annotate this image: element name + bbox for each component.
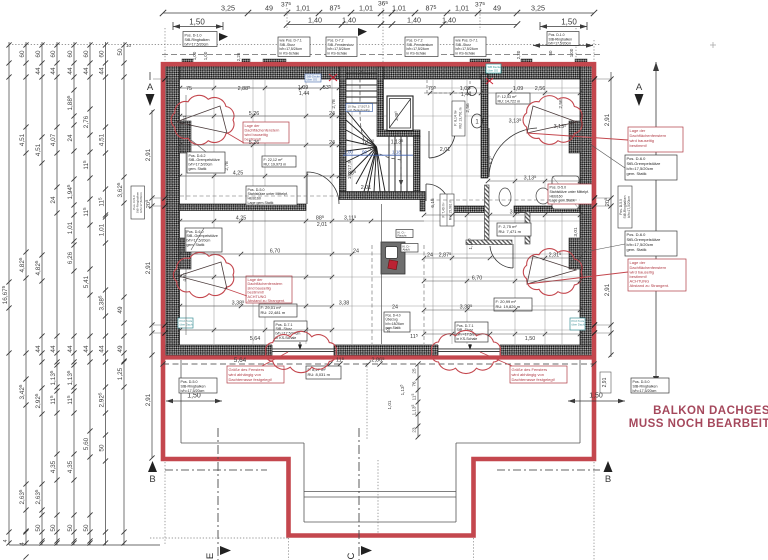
right section arrow line bbox=[655, 62, 657, 385]
red line bottom wall bbox=[163, 355, 594, 359]
revision cloud bottom left bbox=[266, 331, 337, 372]
skylight shaft bbox=[387, 96, 413, 131]
svg-text:3,25: 3,25 bbox=[531, 4, 545, 13]
left room inner dim verticals bbox=[185, 95, 187, 335]
svg-text:4,25: 4,25 bbox=[236, 216, 247, 222]
svg-text:über OG: über OG bbox=[488, 68, 499, 72]
wall pier left lower bbox=[179, 238, 191, 269]
svg-text:in KS-Schale: in KS-Schale bbox=[456, 52, 476, 56]
dashed line above top wall bbox=[162, 54, 600, 56]
partition wall bath right bbox=[525, 212, 530, 244]
svg-text:1,50: 1,50 bbox=[189, 18, 205, 27]
svg-text:Lage der: Lage der bbox=[245, 124, 261, 128]
dashdot verticals E C bbox=[217, 428, 219, 560]
svg-text:1,40: 1,40 bbox=[342, 16, 356, 25]
small rotated box 2,91 bbox=[600, 372, 611, 393]
extension lines left wall bbox=[153, 79, 612, 333]
svg-text:2,78: 2,78 bbox=[331, 99, 337, 109]
svg-text:1,50: 1,50 bbox=[525, 336, 536, 342]
svg-text:RU: 22,481 m: RU: 22,481 m bbox=[261, 310, 286, 315]
revision cloud top right bbox=[523, 96, 582, 145]
svg-text:Abstand zu Strangent.: Abstand zu Strangent. bbox=[630, 283, 670, 288]
interior dim lines bbox=[180, 88, 580, 334]
position circle 1 bbox=[472, 114, 483, 128]
cloud leader lines bbox=[227, 133, 628, 366]
box sturz bottom left bbox=[274, 321, 307, 341]
svg-text:5,41: 5,41 bbox=[83, 275, 90, 288]
svg-text:1,50: 1,50 bbox=[187, 393, 201, 400]
stair walk line bbox=[360, 72, 401, 186]
box F 20,99 bbox=[494, 298, 532, 311]
svg-text:4,51: 4,51 bbox=[98, 133, 105, 146]
partition wall bath horizontal bbox=[466, 240, 512, 245]
svg-text:1,44: 1,44 bbox=[461, 92, 472, 98]
revision cloud mid right bbox=[523, 249, 582, 296]
box F 29,01 bbox=[259, 304, 297, 317]
svg-text:B: B bbox=[605, 474, 611, 485]
svg-text:4,25: 4,25 bbox=[233, 171, 244, 177]
box ringbalken bottom right bbox=[631, 378, 669, 393]
interior wall horizontal right bbox=[514, 206, 580, 213]
svg-text:49: 49 bbox=[265, 4, 273, 13]
stair upper flight treads bbox=[346, 73, 377, 103]
svg-text:RU: 15,081 m: RU: 15,081 m bbox=[449, 200, 453, 221]
top dimension chain bbox=[163, 13, 594, 25]
svg-text:6,15: 6,15 bbox=[430, 198, 436, 208]
right B marker bbox=[604, 461, 613, 472]
svg-text:4: 4 bbox=[3, 539, 9, 542]
paper mark bbox=[710, 42, 716, 48]
svg-text:über Dach: über Dach bbox=[572, 322, 585, 326]
window arrows from sturz boxes bbox=[300, 342, 470, 348]
svg-text:5,64: 5,64 bbox=[234, 357, 247, 364]
svg-text:1,01: 1,01 bbox=[67, 221, 74, 234]
svg-text:BALKON DACHGES: BALKON DACHGES bbox=[653, 405, 768, 417]
leader lines right boxes bbox=[584, 140, 625, 252]
svg-text:1,00: 1,00 bbox=[203, 51, 208, 60]
box stahlstuetze left bbox=[246, 186, 297, 205]
box Pos D-1.0 top left bbox=[183, 32, 217, 47]
svg-text:50: 50 bbox=[67, 524, 74, 532]
svg-text:24: 24 bbox=[386, 327, 392, 333]
svg-text:in KS-Schale: in KS-Schale bbox=[280, 52, 300, 56]
svg-text:24: 24 bbox=[427, 253, 433, 259]
svg-text:Stahlstütze unter Mittelpf.: Stahlstütze unter Mittelpf. bbox=[248, 192, 289, 196]
box stahlstuetze right bbox=[548, 184, 592, 204]
svg-text:60: 60 bbox=[50, 50, 57, 58]
svg-text:44: 44 bbox=[67, 67, 74, 75]
svg-text:2,76: 2,76 bbox=[83, 115, 90, 128]
svg-text:Pos. D-5.0: Pos. D-5.0 bbox=[248, 188, 265, 192]
door arc hall to room bbox=[426, 184, 448, 201]
svg-text:Lage gem.Statik: Lage gem.Statik bbox=[248, 201, 274, 205]
near-plan left dim line bbox=[151, 110, 153, 458]
box right grempel 1 bbox=[625, 155, 677, 180]
svg-text:44: 44 bbox=[50, 345, 57, 353]
svg-text:1,01: 1,01 bbox=[98, 223, 105, 236]
svg-text:4,35: 4,35 bbox=[67, 460, 74, 473]
svg-text:A: A bbox=[147, 82, 154, 93]
svg-text:60: 60 bbox=[67, 50, 74, 58]
flag top left bbox=[219, 33, 228, 41]
svg-text:b/h=17,5/20cm: b/h=17,5/20cm bbox=[187, 239, 211, 243]
svg-text:4: 4 bbox=[19, 542, 26, 546]
svg-text:60: 60 bbox=[83, 50, 90, 58]
svg-text:2,20: 2,20 bbox=[516, 50, 521, 59]
box F 22,12 bbox=[262, 156, 296, 167]
svg-text:1,40: 1,40 bbox=[407, 16, 421, 25]
svg-text:E: E bbox=[205, 553, 216, 559]
svg-text:5,60: 5,60 bbox=[83, 437, 90, 450]
stair lower flight treads bbox=[368, 137, 407, 192]
wall pier right lower bbox=[569, 238, 581, 269]
svg-text:2,56: 2,56 bbox=[535, 86, 546, 92]
svg-text:44: 44 bbox=[83, 345, 90, 353]
svg-text:76: 76 bbox=[412, 381, 417, 387]
terrace steps double line bbox=[304, 491, 456, 493]
svg-text:in KS-Schale: in KS-Schale bbox=[328, 52, 348, 56]
svg-text:3,38: 3,38 bbox=[339, 301, 350, 307]
svg-text:6,26: 6,26 bbox=[67, 251, 74, 264]
svg-text:2,91: 2,91 bbox=[604, 113, 611, 126]
svg-text:2,78: 2,78 bbox=[224, 161, 230, 171]
stair label box bbox=[346, 104, 373, 112]
svg-text:2,01: 2,01 bbox=[440, 147, 451, 153]
svg-text:b/h=17,5/20cm: b/h=17,5/20cm bbox=[185, 42, 209, 46]
box F 12,53 bbox=[496, 93, 530, 104]
interior wall vertical right bbox=[481, 74, 488, 178]
svg-text:RU: 7,471 m: RU: 7,471 m bbox=[499, 229, 522, 234]
stair winder fan upper bbox=[346, 110, 377, 192]
box grempel top left bbox=[187, 152, 225, 173]
svg-text:StB.-Sturz: StB.-Sturz bbox=[276, 327, 293, 331]
svg-text:StB-Ringbalken: StB-Ringbalken bbox=[181, 384, 206, 388]
wall tick slashes bbox=[162, 76, 167, 81]
sink fixture bbox=[536, 188, 550, 204]
svg-text:50: 50 bbox=[50, 524, 57, 532]
svg-text:Dachterrasse festgelegt!: Dachterrasse festgelegt! bbox=[229, 377, 272, 382]
svg-text:b/h=17,5/20cm: b/h=17,5/20cm bbox=[627, 196, 631, 218]
svg-text:4,07: 4,07 bbox=[50, 133, 57, 146]
svg-text:1,50: 1,50 bbox=[589, 393, 603, 400]
leader lines left boxes bbox=[191, 140, 206, 250]
svg-text:A: A bbox=[636, 82, 643, 93]
svg-text:2,01: 2,01 bbox=[317, 222, 328, 228]
svg-text:b/h=17,5/20cm: b/h=17,5/20cm bbox=[633, 389, 657, 393]
svg-text:2,56: 2,56 bbox=[558, 99, 564, 109]
box sturz bottom right bbox=[455, 322, 488, 342]
svg-text:C: C bbox=[346, 552, 357, 559]
svg-text:2,56: 2,56 bbox=[465, 103, 471, 113]
svg-text:Pos. D-5.0: Pos. D-5.0 bbox=[181, 380, 198, 384]
red box right 2 bbox=[628, 259, 686, 291]
right dim line bbox=[610, 72, 612, 357]
dashed ridge lines lower rooms bbox=[180, 196, 580, 344]
box right grempel 2 bbox=[625, 231, 677, 256]
svg-text:2,26: 2,26 bbox=[236, 52, 241, 61]
box rotated F 8,14 bbox=[452, 101, 465, 136]
svg-text:44: 44 bbox=[35, 345, 42, 353]
svg-text:StB.-Grempelstütze: StB.-Grempelstütze bbox=[189, 158, 220, 162]
svg-text:1,18: 1,18 bbox=[392, 150, 401, 155]
lintel marks above top wall bbox=[182, 59, 193, 64]
svg-text:1,40: 1,40 bbox=[442, 16, 456, 25]
box Pos D-7.1 a bbox=[278, 37, 310, 57]
outer wall bottom bbox=[166, 345, 593, 356]
skylight dashed rect bbox=[427, 74, 470, 93]
svg-text:50: 50 bbox=[117, 48, 124, 56]
svg-text:Pos. D-7.1: Pos. D-7.1 bbox=[457, 324, 474, 328]
svg-text:4,51: 4,51 bbox=[182, 115, 188, 125]
svg-text:44: 44 bbox=[35, 67, 42, 75]
stair core wall bottom bbox=[339, 192, 425, 200]
svg-text:gem. Statik: gem. Statik bbox=[627, 171, 647, 176]
revision cloud bottom right bbox=[432, 330, 501, 373]
rotated F 7,49 box bbox=[440, 194, 454, 226]
svg-text:44: 44 bbox=[67, 345, 74, 353]
svg-text:gem. Statik: gem. Statik bbox=[187, 243, 205, 247]
window symbol triangles in clouds bbox=[176, 106, 577, 289]
svg-text:5,26: 5,26 bbox=[249, 140, 260, 146]
svg-text:Pos. D-7.1: Pos. D-7.1 bbox=[276, 323, 293, 327]
svg-text:F: 22,12 m²: F: 22,12 m² bbox=[264, 158, 284, 162]
svg-text:F: 8,14 m²: F: 8,14 m² bbox=[454, 109, 458, 125]
dotted verticals terrace bbox=[150, 363, 594, 560]
svg-text:23: 23 bbox=[412, 427, 417, 433]
svg-text:1,09: 1,09 bbox=[460, 86, 471, 92]
wc fixture bbox=[499, 188, 511, 206]
small blue box top stair bbox=[486, 64, 501, 73]
svg-text:StB-Ringbalken: StB-Ringbalken bbox=[185, 38, 210, 42]
svg-text:b/h=17,5/20cm: b/h=17,5/20cm bbox=[549, 42, 572, 46]
svg-text:1,00: 1,00 bbox=[569, 48, 574, 57]
red x small bbox=[486, 78, 493, 84]
svg-text:44: 44 bbox=[98, 67, 105, 75]
outer wall top bbox=[166, 66, 593, 79]
chimney labels bbox=[396, 230, 413, 238]
svg-text:RU: 8,031 m: RU: 8,031 m bbox=[308, 372, 331, 377]
svg-text:gem. Statik: gem. Statik bbox=[627, 247, 647, 252]
svg-text:1,01: 1,01 bbox=[296, 4, 310, 13]
svg-text:49: 49 bbox=[117, 345, 124, 353]
svg-text:Abluft: Abluft bbox=[403, 248, 410, 252]
left B marker bbox=[148, 461, 157, 472]
outer wall left bbox=[166, 64, 180, 356]
box ueberzug bbox=[384, 312, 410, 332]
svg-text:2,01: 2,01 bbox=[361, 185, 372, 191]
dotted vertical top margin bbox=[9, 8, 600, 62]
svg-text:b/h=17,5/20cm: b/h=17,5/20cm bbox=[189, 163, 213, 167]
revision cloud mid left bbox=[173, 252, 233, 297]
svg-text:Dachflächenfenstern: Dachflächenfenstern bbox=[245, 129, 280, 133]
box Pos D-1.0 top right bbox=[547, 32, 579, 46]
box Pos D-7.2 b bbox=[405, 37, 438, 57]
svg-text:2,91: 2,91 bbox=[145, 148, 152, 161]
svg-text:5,64: 5,64 bbox=[250, 336, 261, 342]
svg-text:b/h=17,5/20cm: b/h=17,5/20cm bbox=[181, 389, 205, 393]
bottom center mini chain bbox=[417, 364, 419, 437]
partition wall bath vertical bbox=[485, 185, 490, 244]
box Pos D-7.2 a bbox=[326, 37, 357, 57]
stair blue measure line bbox=[343, 154, 413, 156]
stair core wall right bbox=[414, 136, 421, 192]
wall pier left upper bbox=[179, 121, 191, 153]
svg-text:StB.-Grempelstütze: StB.-Grempelstütze bbox=[187, 234, 218, 238]
chimney block bbox=[381, 242, 405, 274]
red box bottom left bbox=[227, 366, 284, 383]
box rotated left ringbalken bbox=[131, 186, 145, 219]
svg-text:24: 24 bbox=[50, 196, 57, 204]
red x mark stair top bbox=[329, 74, 337, 81]
svg-text:24: 24 bbox=[329, 111, 335, 117]
stair core wall left bbox=[339, 67, 346, 192]
svg-text:3,25: 3,25 bbox=[221, 4, 235, 13]
interior guide lines bbox=[180, 80, 580, 344]
svg-text:6,70: 6,70 bbox=[472, 276, 483, 282]
svg-text:49: 49 bbox=[117, 306, 124, 314]
svg-text:15x 17,5: 15x 17,5 bbox=[347, 160, 353, 179]
svg-text:1,25: 1,25 bbox=[117, 367, 124, 380]
svg-text:24: 24 bbox=[353, 249, 359, 255]
svg-text:RU: 14,722 m: RU: 14,722 m bbox=[498, 100, 521, 104]
bottom dim line bbox=[163, 363, 594, 365]
svg-text:in KS-Schale: in KS-Schale bbox=[457, 337, 478, 341]
svg-text:4,35: 4,35 bbox=[50, 460, 57, 473]
red box right 1 bbox=[628, 127, 683, 152]
svg-text:RU: 19,973 m: RU: 19,973 m bbox=[264, 163, 287, 167]
svg-text:60: 60 bbox=[98, 50, 105, 58]
svg-text:über OG: über OG bbox=[307, 78, 318, 82]
svg-text:bestimmt!: bestimmt! bbox=[630, 143, 647, 148]
box grempel mid left bbox=[185, 228, 222, 252]
svg-text:4,51: 4,51 bbox=[182, 272, 188, 282]
svg-text:25: 25 bbox=[412, 368, 417, 374]
svg-text:Lage gem.Statik: Lage gem.Statik bbox=[550, 199, 576, 203]
interior dim ticks bbox=[178, 86, 182, 90]
door arc hall bbox=[429, 131, 455, 158]
svg-text:4,51: 4,51 bbox=[35, 143, 42, 156]
svg-text:49: 49 bbox=[493, 4, 501, 13]
svg-text:gem. Statik: gem. Statik bbox=[189, 167, 207, 171]
small teal box left bbox=[178, 318, 193, 328]
bottom 1,50 dims bbox=[166, 400, 625, 402]
svg-text:Abstand zu Strangent.: Abstand zu Strangent. bbox=[248, 299, 286, 303]
svg-text:44: 44 bbox=[83, 67, 90, 75]
svg-text:60: 60 bbox=[35, 50, 42, 58]
door arc room left bbox=[307, 172, 339, 204]
svg-text:2,91: 2,91 bbox=[604, 283, 611, 296]
svg-text:90: 90 bbox=[362, 150, 368, 155]
svg-text:wird bauseitig: wird bauseitig bbox=[245, 133, 268, 137]
svg-text:Pos. D-6.2: Pos. D-6.2 bbox=[189, 154, 206, 158]
svg-text:b/h=17,5/20cm: b/h=17,5/20cm bbox=[139, 192, 143, 213]
svg-text:Dachterrasse festgelegt!: Dachterrasse festgelegt! bbox=[512, 377, 555, 382]
chimney dim line bbox=[381, 204, 383, 344]
svg-text:75: 75 bbox=[186, 86, 192, 92]
interior wall horizontal mid bbox=[452, 206, 489, 213]
svg-text:incl. Belag/Laufig: incl. Belag/Laufig bbox=[348, 108, 370, 112]
svg-text:50: 50 bbox=[35, 524, 42, 532]
window bottom wall right bbox=[438, 345, 500, 357]
svg-text:B: B bbox=[149, 474, 155, 485]
svg-text:60: 60 bbox=[19, 50, 26, 58]
svg-text:24: 24 bbox=[67, 134, 74, 142]
revision cloud top left bbox=[171, 95, 234, 144]
svg-text:1,00: 1,00 bbox=[192, 51, 197, 60]
svg-text:24: 24 bbox=[329, 140, 335, 146]
svg-text:6,70: 6,70 bbox=[270, 249, 281, 255]
door arc bath small bbox=[490, 244, 513, 268]
svg-text:2,91: 2,91 bbox=[145, 393, 152, 406]
red box top left bbox=[243, 122, 289, 143]
small blue box top wall bbox=[305, 74, 321, 82]
svg-text:1,01: 1,01 bbox=[392, 4, 406, 13]
shower bbox=[552, 176, 579, 209]
svg-text:Pos. D-1.0: Pos. D-1.0 bbox=[185, 33, 202, 37]
svg-text:5,26: 5,26 bbox=[249, 111, 260, 117]
svg-text:1,40: 1,40 bbox=[308, 16, 322, 25]
svg-text:44: 44 bbox=[98, 345, 105, 353]
svg-text:Pos. D-5.0: Pos. D-5.0 bbox=[633, 380, 650, 384]
box rotated right ringbalken bbox=[618, 186, 632, 228]
svg-text:1,01: 1,01 bbox=[387, 400, 392, 409]
stair core wall mid horizontal bbox=[377, 130, 420, 137]
wall pier right upper bbox=[569, 121, 581, 153]
svg-text:MUSS NOCH BEARBEIT: MUSS NOCH BEARBEIT bbox=[629, 418, 768, 430]
svg-text:1,01: 1,01 bbox=[455, 4, 469, 13]
svg-text:1,01: 1,01 bbox=[359, 4, 373, 13]
flag mid bbox=[358, 28, 367, 36]
svg-text:F: 12,53 m²: F: 12,53 m² bbox=[498, 95, 518, 99]
svg-text:44: 44 bbox=[50, 67, 57, 75]
svg-text:in KS-Schale: in KS-Schale bbox=[407, 52, 427, 56]
svg-text:1,44: 1,44 bbox=[299, 91, 310, 97]
svg-text:50: 50 bbox=[98, 444, 105, 452]
red box mid left bbox=[246, 276, 292, 303]
svg-text:24: 24 bbox=[392, 305, 398, 311]
svg-text:1,09: 1,09 bbox=[513, 86, 524, 92]
svg-text:10: 10 bbox=[126, 43, 132, 48]
svg-text:2,91: 2,91 bbox=[602, 377, 608, 387]
left dimension chains bbox=[9, 42, 160, 545]
box Pos D-7.1 b bbox=[454, 37, 486, 57]
small circle symbol bbox=[468, 87, 477, 96]
svg-text:50: 50 bbox=[548, 50, 553, 55]
section line B-B dashes bbox=[165, 469, 600, 471]
svg-text:1,50: 1,50 bbox=[561, 18, 577, 27]
svg-text:HEB160: HEB160 bbox=[248, 197, 261, 201]
top 1,50 dims bbox=[173, 22, 587, 30]
door arc bath big bbox=[489, 128, 537, 177]
svg-text:2,91: 2,91 bbox=[145, 261, 152, 274]
svg-text:RU: 13,791 m: RU: 13,791 m bbox=[459, 107, 463, 128]
stair core wall center bbox=[377, 67, 384, 131]
terrace outline thin bbox=[181, 360, 580, 522]
window bottom wall left bbox=[272, 345, 334, 357]
outer wall right bbox=[580, 64, 594, 356]
svg-text:1,00: 1,00 bbox=[344, 150, 353, 155]
svg-text:3,01: 3,01 bbox=[573, 227, 579, 237]
box F 2,75 bbox=[497, 223, 531, 236]
left chain ticks bbox=[6, 42, 11, 47]
small teal box right bbox=[570, 318, 585, 330]
red box bottom right bbox=[510, 366, 567, 383]
svg-text:4,51: 4,51 bbox=[19, 133, 26, 146]
red revision outline (terrace + building) bbox=[163, 64, 594, 535]
svg-text:in KS-Schale: in KS-Schale bbox=[276, 336, 297, 340]
box ringbalken bottom left bbox=[179, 378, 217, 393]
box F 8,27 bbox=[306, 366, 341, 379]
